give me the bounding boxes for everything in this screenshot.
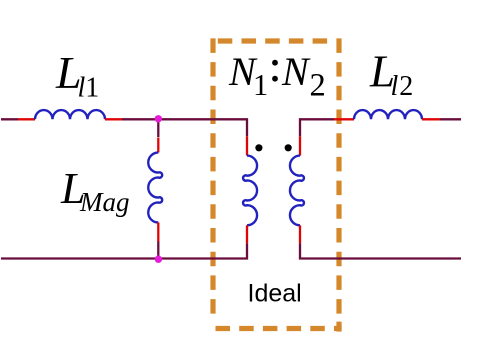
dashed box right edge [336, 38, 341, 318]
node: junction dot bottom (magenta) [155, 256, 162, 263]
wire: red segment left of L_l2 [334, 118, 354, 120]
svg-text:N: N [281, 49, 311, 94]
polarity dot primary [255, 144, 262, 151]
polarity dot secondary [285, 144, 292, 151]
transformer secondary winding U2 (3 loops bulging left) [290, 156, 304, 226]
wire: secondary top corner to L_l2 [300, 119, 334, 136]
wire: red segment right of L_l2 [422, 118, 440, 120]
wire: L_Mag top red segment [157, 138, 159, 153]
svg-text:Ideal: Ideal [248, 280, 302, 308]
dashed box bottom-right corner piece [336, 322, 341, 332]
dashed box left edge [210, 38, 215, 318]
wire: red segment left of L_l1 [18, 118, 35, 120]
inductor L_Mag (magnetizing, 3 loops bulging left) [148, 153, 162, 223]
wire: L_Mag bottom red segment [157, 223, 159, 242]
dashed box (Ideal transformer boundary) top edge [218, 38, 327, 43]
transformer primary winding top red segment [246, 136, 248, 155]
transformer primary winding U1 (3 loops bulging right) [243, 156, 257, 226]
transformer secondary winding top red segment [299, 136, 301, 155]
svg-text:1: 1 [253, 68, 268, 102]
wire: bottom-right purple [300, 243, 461, 258]
dashed box bottom edge [216, 326, 342, 331]
svg-text:Mag: Mag [79, 187, 130, 217]
svg-text:2: 2 [310, 68, 326, 104]
wire: top-left purple lead [1, 118, 18, 120]
inductor L_l2 (series leakage, 4 humps) [354, 110, 422, 119]
inductor L_l1 (series leakage, 4 humps) [35, 110, 105, 119]
wire: bottom-left purple [1, 243, 247, 258]
wire: purple from L_l1 to primary top corner [122, 119, 247, 136]
wire: L_Mag top purple stub [157, 119, 159, 137]
node: junction dot top (magenta) [155, 115, 162, 122]
wire: L_Mag bottom purple stub [157, 242, 159, 259]
wire: red segment right of L_l1 [105, 118, 122, 120]
svg-text:l2: l2 [391, 71, 415, 102]
transformer secondary winding bottom red segment [299, 225, 301, 243]
wire: top-right purple lead [440, 118, 461, 120]
svg-text:l1: l1 [78, 73, 100, 104]
transformer primary winding bottom red segment [246, 225, 248, 243]
